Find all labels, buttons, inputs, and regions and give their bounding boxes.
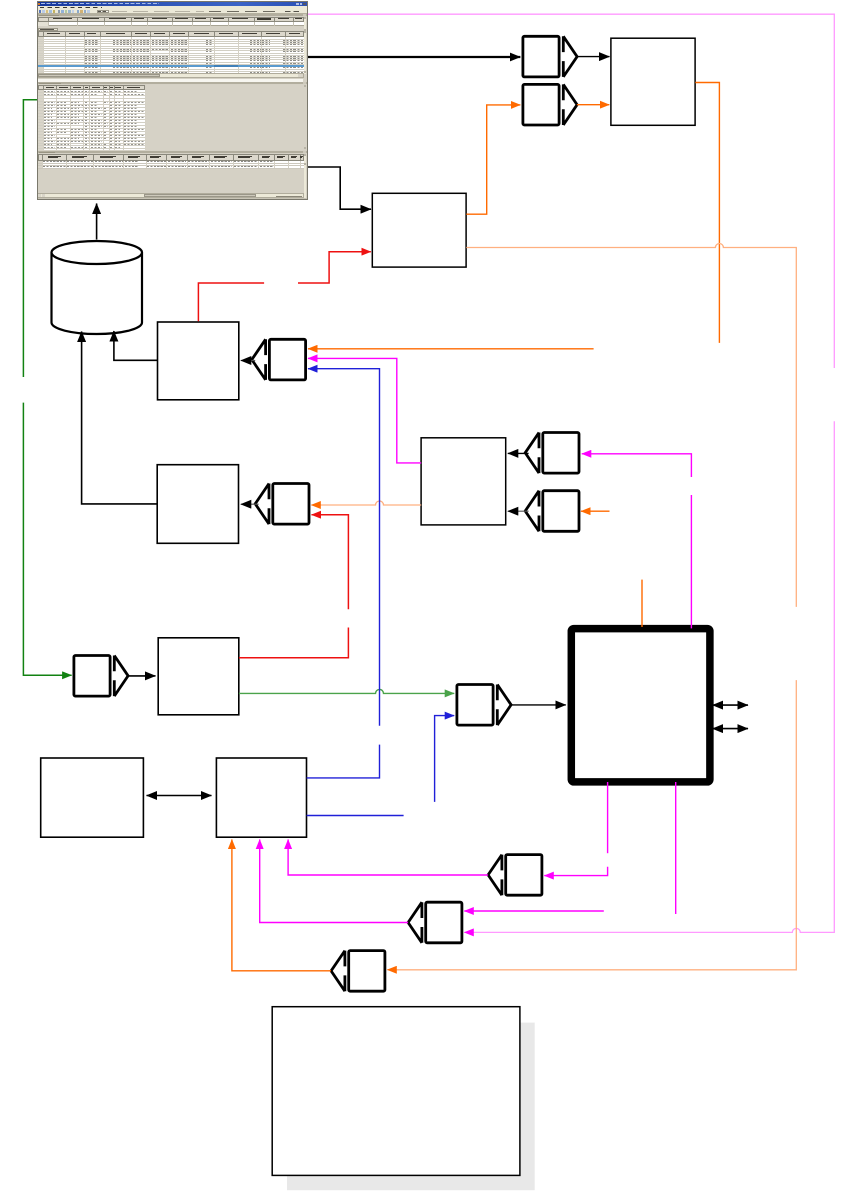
wire box3 to icon7 green bbox=[239, 689, 454, 693]
icon6 bbox=[74, 656, 128, 697]
wire icon3 to box2 black bbox=[508, 452, 529, 454]
table 3 detail grid bbox=[38, 85, 145, 90]
wire icon1b to boxTR orange bbox=[577, 104, 609, 106]
wire window to icon6 green bbox=[23, 100, 37, 377]
wire box5 to icon2 blue bbox=[307, 745, 380, 778]
panel header: messages list bbox=[38, 14, 307, 17]
box mid bbox=[372, 193, 466, 267]
wire window to icon9 pink bbox=[307, 14, 835, 368]
wire box1 to cylinder black bbox=[114, 331, 157, 360]
wire window to boxmid black bbox=[306, 167, 371, 209]
table 4 settlement grid bbox=[38, 154, 304, 161]
wire boxmid to icon1b orange bbox=[466, 105, 520, 214]
icon5 bbox=[255, 484, 309, 525]
table 1 header row bbox=[38, 17, 304, 22]
icon9 bbox=[408, 902, 462, 943]
window right scrollbars bbox=[304, 17, 307, 74]
icon3 bbox=[525, 433, 579, 474]
panel header: message detail bbox=[38, 82, 307, 85]
wire bigbox double arrow 2 bbox=[713, 728, 749, 730]
wire box1b to cylinder black bbox=[82, 332, 158, 504]
database cylinder bbox=[52, 253, 143, 335]
wire icon1a to boxTR black bbox=[577, 56, 610, 58]
wire icon8 to box5 magenta bbox=[288, 840, 488, 876]
wire box5 to icon7 blue bbox=[307, 815, 404, 817]
wire box2 to icon5 peach bbox=[311, 501, 421, 505]
old message tab bbox=[38, 28, 58, 31]
wire bigbox to icon8 magenta bbox=[607, 782, 609, 853]
panel header: settlement bbox=[38, 151, 307, 154]
wire window to icon1a black bbox=[306, 56, 520, 58]
icon7 bbox=[457, 685, 511, 726]
wire icon4 to box2 black bbox=[508, 510, 529, 512]
icon1a bbox=[523, 36, 577, 77]
box4 bbox=[41, 758, 144, 837]
window menu bar bbox=[38, 6, 307, 9]
window toolbar bbox=[38, 9, 307, 14]
icon2 bbox=[252, 339, 306, 380]
box1 bbox=[158, 322, 239, 400]
wire box1 to boxmid red bbox=[198, 283, 264, 321]
box1b bbox=[157, 465, 238, 544]
wire orange into bigbox top partial bbox=[641, 580, 643, 627]
table 2 message grid bbox=[38, 31, 304, 37]
window title bar bbox=[38, 2, 307, 6]
wire icon5 to box1b black bbox=[241, 503, 259, 505]
icon10 bbox=[331, 951, 385, 992]
wire box2 to icon2 magenta bbox=[308, 358, 421, 463]
wire bigbox to icon9 magenta partial bbox=[675, 782, 677, 914]
wire orange into icon4 partial bbox=[581, 510, 610, 512]
window status bar bbox=[38, 197, 307, 200]
big thick box bbox=[571, 629, 710, 782]
wire cylinder to window black bbox=[96, 204, 98, 240]
icon4 bbox=[525, 491, 579, 532]
shadow of bottom box bbox=[287, 1023, 535, 1191]
wire icon2 to box1 black bbox=[241, 360, 255, 362]
wire boxTR down orange partial bbox=[695, 83, 719, 343]
wire icon7 to bigbox black bbox=[511, 704, 566, 706]
table 1 empty row bbox=[38, 22, 304, 27]
box top right bbox=[611, 38, 695, 125]
wire orange into icon2 partial bbox=[308, 348, 594, 350]
box3 bbox=[158, 638, 239, 715]
wire box3 to icon5 red bbox=[239, 628, 349, 658]
window bottom scrollbar bbox=[38, 193, 304, 197]
box2 bbox=[421, 438, 506, 525]
icon1b bbox=[523, 84, 577, 125]
wire icon9 to box5 magenta bbox=[260, 840, 408, 923]
wire icon10 to box5 orange bbox=[232, 840, 331, 971]
icon8 bbox=[488, 855, 542, 896]
application window screenshot bbox=[38, 2, 307, 199]
box5 bbox=[216, 758, 306, 837]
wire icon6 to box3 black bbox=[128, 675, 156, 677]
bottom box bbox=[272, 1007, 520, 1176]
wire bigbox to icon3 magenta bbox=[690, 495, 692, 628]
wire bigbox double arrow 1 bbox=[713, 704, 749, 706]
wire boxmid to icon10 peach bbox=[466, 244, 796, 607]
wire box4 box5 double arrow bbox=[147, 795, 212, 797]
